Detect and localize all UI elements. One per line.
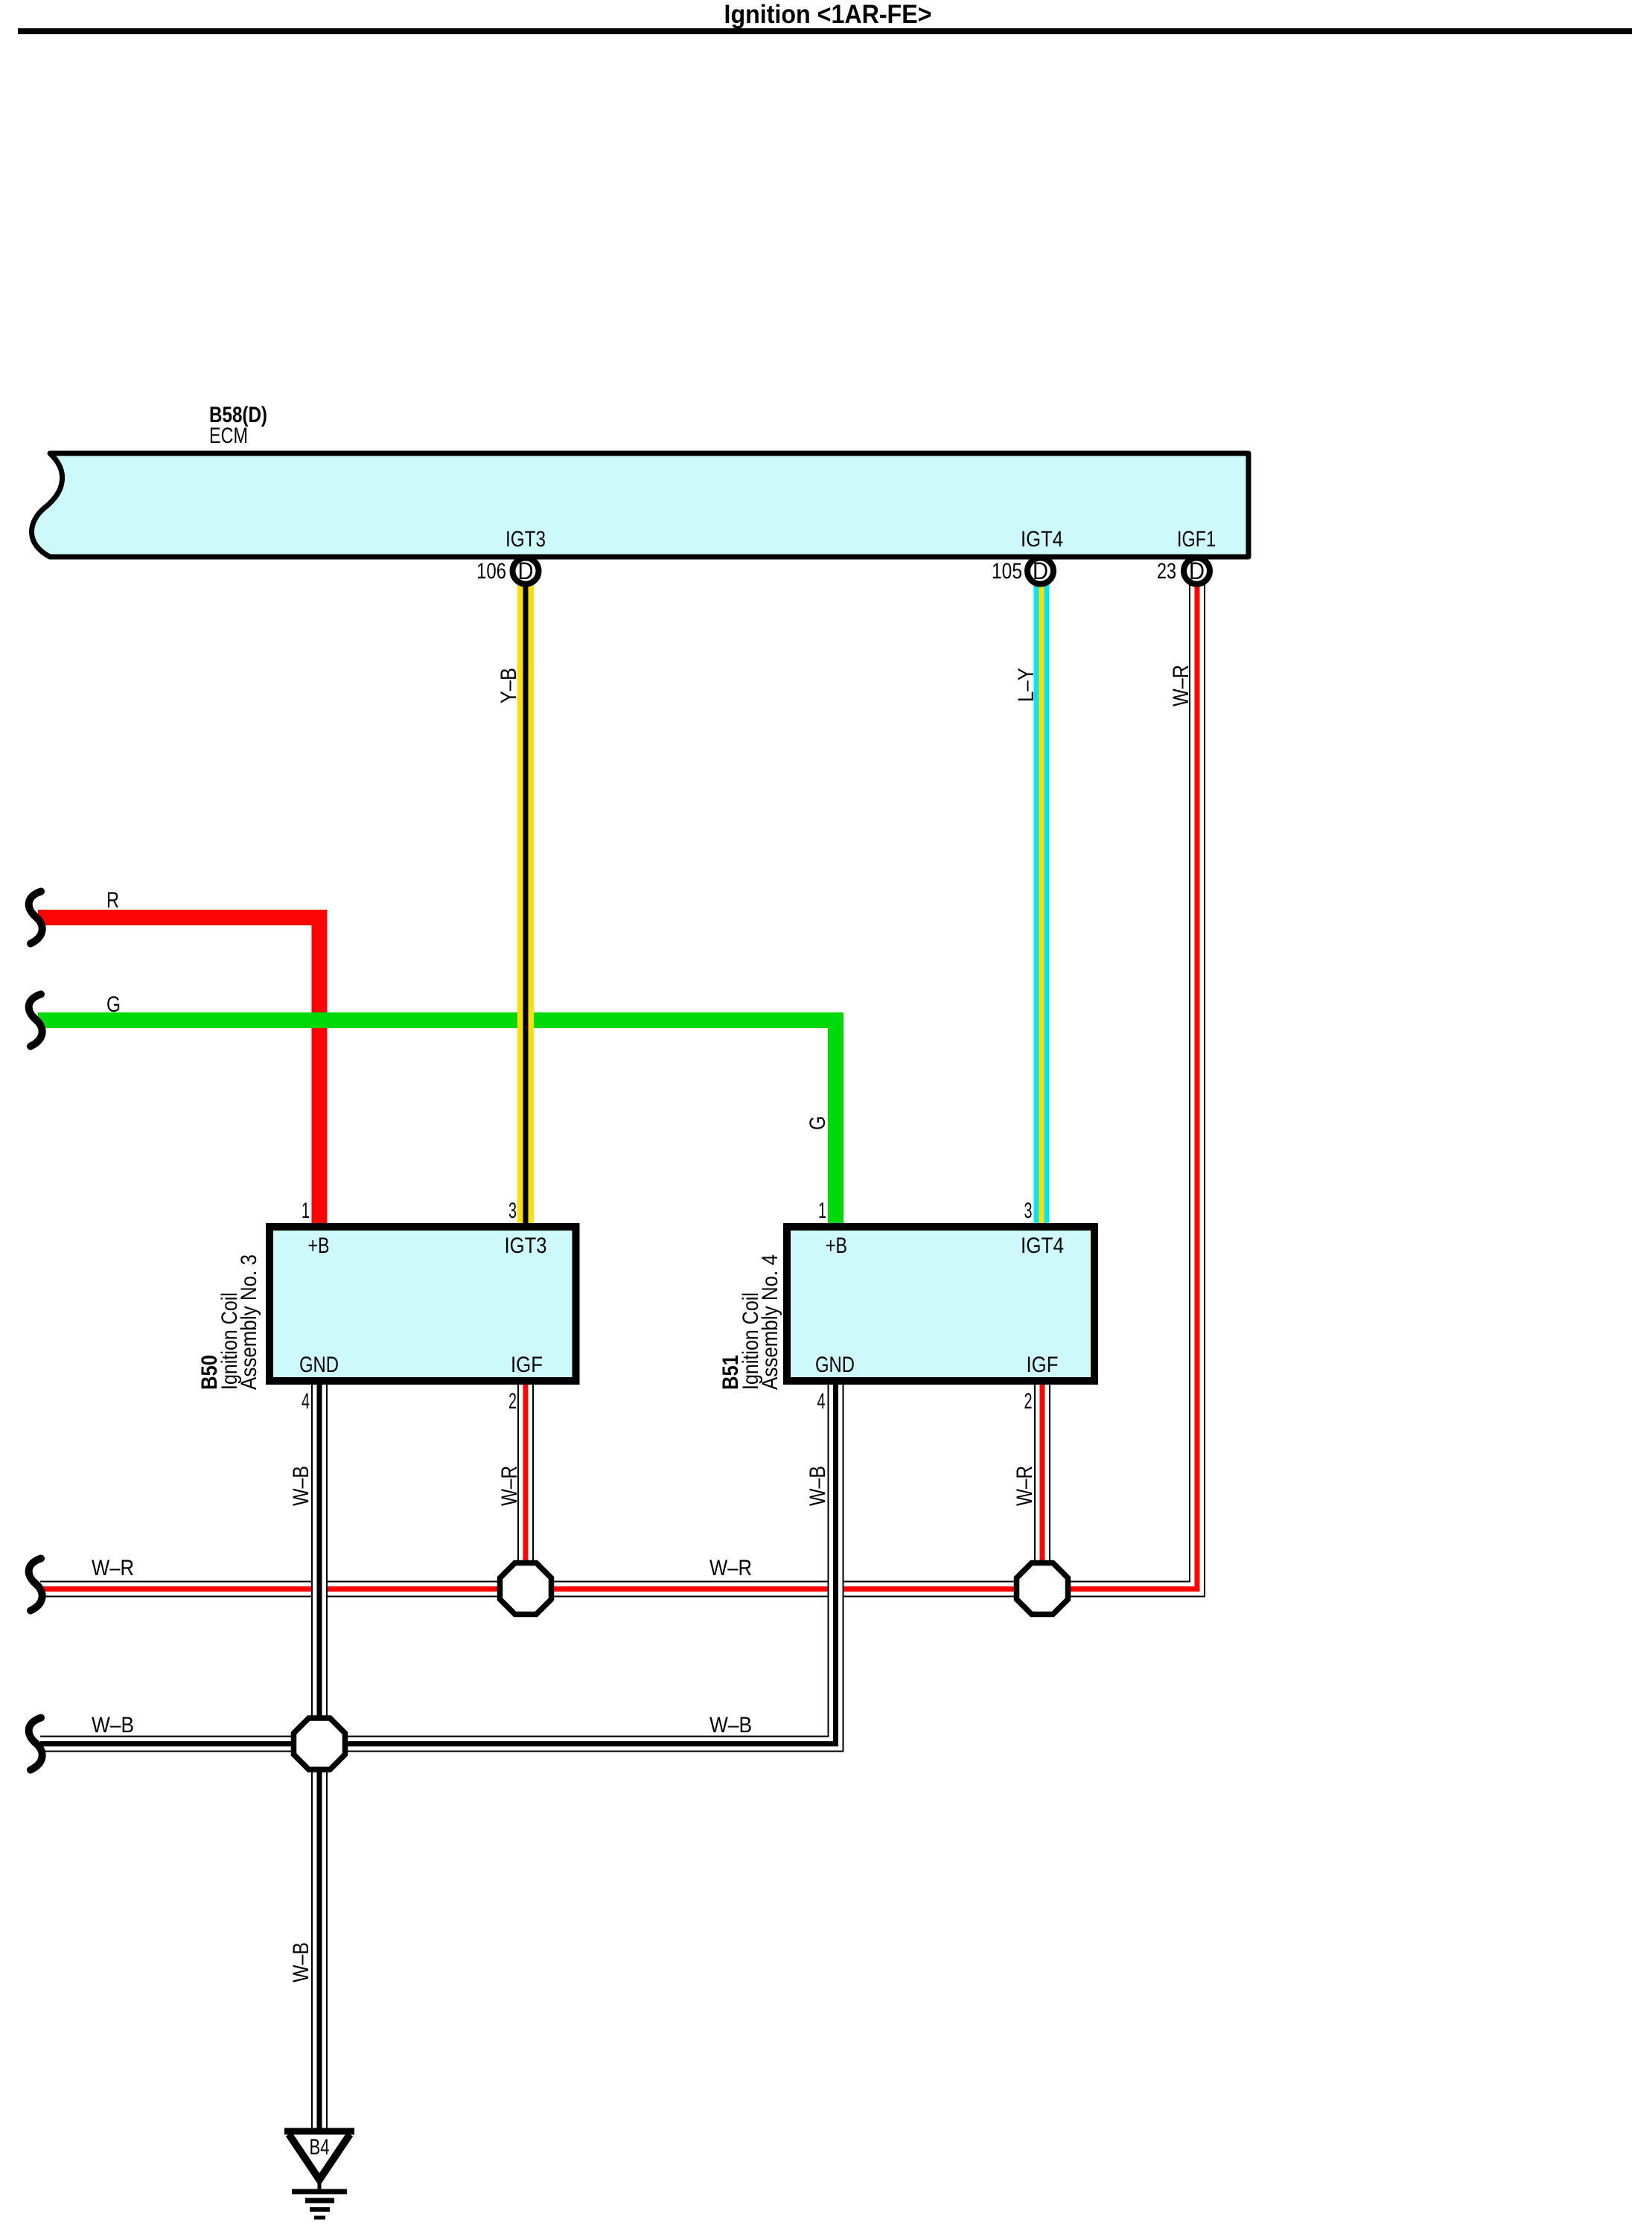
svg-text:R: R xyxy=(106,888,119,913)
svg-text:W–R: W–R xyxy=(497,1466,522,1506)
svg-text:IGT4: IGT4 xyxy=(1021,527,1063,552)
svg-text:W–B: W–B xyxy=(709,1713,752,1737)
svg-text:Assembly No. 4: Assembly No. 4 xyxy=(758,1254,782,1390)
svg-text:ECM: ECM xyxy=(209,424,248,448)
svg-text:D: D xyxy=(1189,558,1205,584)
svg-text:W–R: W–R xyxy=(709,1556,752,1580)
svg-text:G: G xyxy=(106,992,121,1017)
svg-text:+B: +B xyxy=(826,1234,847,1258)
svg-text:IGF: IGF xyxy=(511,1353,543,1377)
svg-text:3: 3 xyxy=(1024,1199,1033,1223)
svg-text:GND: GND xyxy=(815,1353,855,1377)
svg-text:W–R: W–R xyxy=(1169,665,1193,706)
svg-text:Y–B: Y–B xyxy=(497,668,521,703)
svg-text:GND: GND xyxy=(299,1353,339,1377)
svg-text:Assembly No. 3: Assembly No. 3 xyxy=(237,1254,261,1390)
svg-text:D: D xyxy=(1033,558,1048,584)
svg-text:105: 105 xyxy=(992,559,1022,584)
svg-text:IGT4: IGT4 xyxy=(1021,1234,1064,1258)
svg-text:4: 4 xyxy=(302,1389,310,1414)
svg-text:W–R: W–R xyxy=(92,1556,134,1580)
svg-text:IGF: IGF xyxy=(1027,1353,1059,1377)
svg-text:W–B: W–B xyxy=(92,1713,134,1737)
svg-text:2: 2 xyxy=(508,1389,517,1414)
svg-text:W–B: W–B xyxy=(289,1942,313,1982)
svg-text:B4: B4 xyxy=(310,2135,330,2160)
svg-text:1: 1 xyxy=(818,1199,826,1223)
svg-text:D: D xyxy=(518,558,534,584)
svg-text:IGF1: IGF1 xyxy=(1177,527,1216,552)
svg-text:+B: +B xyxy=(308,1234,330,1258)
svg-text:23: 23 xyxy=(1157,559,1176,584)
svg-text:W–B: W–B xyxy=(289,1466,313,1506)
svg-text:L–Y: L–Y xyxy=(1014,668,1039,702)
svg-text:2: 2 xyxy=(1024,1389,1033,1414)
svg-text:1: 1 xyxy=(302,1199,310,1223)
svg-text:G: G xyxy=(806,1116,830,1130)
svg-text:4: 4 xyxy=(817,1389,826,1414)
svg-text:3: 3 xyxy=(508,1199,517,1223)
svg-text:106: 106 xyxy=(476,559,506,584)
svg-text:IGT3: IGT3 xyxy=(505,1234,547,1258)
svg-text:IGT3: IGT3 xyxy=(506,527,546,552)
svg-text:Ignition <1AR-FE>: Ignition <1AR-FE> xyxy=(724,0,932,29)
svg-text:W–B: W–B xyxy=(806,1466,830,1506)
svg-text:W–R: W–R xyxy=(1012,1466,1037,1506)
